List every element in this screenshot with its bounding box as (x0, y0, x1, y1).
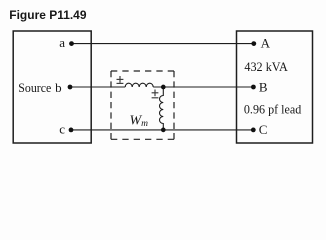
wire b to current coil (70, 86, 125, 88)
wattmeter voltage coil (160, 87, 164, 130)
svg-text:432 kVA: 432 kVA (244, 60, 287, 74)
source label (18, 80, 51, 95)
wattmeter dashed box (111, 71, 174, 139)
svg-text:a: a (59, 35, 65, 50)
source box (13, 31, 91, 143)
label b (55, 80, 62, 95)
label B (259, 79, 268, 94)
terminal C (251, 127, 256, 132)
wire a to A (72, 43, 254, 45)
svg-text:A: A (261, 36, 271, 51)
wattmeter current coil (125, 83, 153, 87)
label A (261, 36, 271, 51)
svg-text:C: C (259, 122, 268, 137)
wattmeter label Wm (130, 113, 149, 129)
load box (237, 31, 313, 143)
terminal B (251, 85, 256, 90)
terminal b (68, 85, 73, 90)
wire c to C (71, 129, 253, 131)
polarity mark (plus-minus) for voltage coil (152, 90, 159, 98)
svg-text:Source: Source (18, 80, 51, 95)
terminal c (69, 127, 74, 132)
svg-text:c: c (59, 121, 65, 136)
figure title Figure P11.49 (9, 8, 87, 22)
label c (59, 121, 65, 136)
polarity mark (plus-minus) for current coil (117, 76, 124, 83)
terminal a (69, 41, 74, 46)
load value label 0.96 pf lead (244, 103, 302, 117)
svg-text:b: b (55, 80, 62, 95)
svg-text:Figure P11.49: Figure P11.49 (9, 8, 87, 22)
svg-text:0.96 pf lead: 0.96 pf lead (244, 103, 302, 117)
terminal A (251, 41, 256, 46)
label a (59, 35, 65, 50)
wire current coil to B (153, 86, 253, 88)
junction node on line c (161, 128, 166, 133)
junction node on line b (161, 85, 166, 90)
load value label 432 kVA (244, 60, 287, 74)
label C (259, 122, 268, 137)
svg-text:Wm: Wm (130, 113, 149, 129)
svg-text:B: B (259, 79, 268, 94)
